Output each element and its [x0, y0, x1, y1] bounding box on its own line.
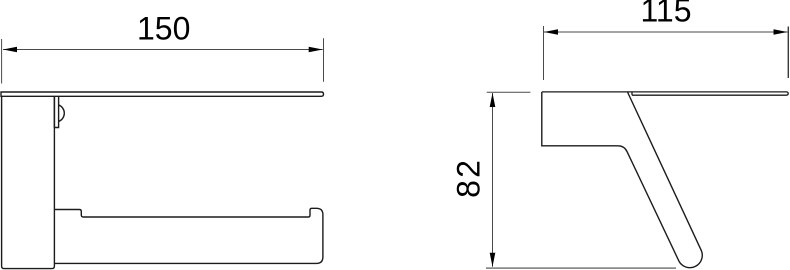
- dimension line 150: [3, 49, 323, 51]
- front view: roller post strip: [54, 96, 58, 127]
- front view: shelf profile: [1, 92, 324, 96]
- arrowhead left of 115: [544, 29, 558, 35]
- extension line bottom of 82: [486, 267, 676, 269]
- side view: arm tick under shelf: [631, 92, 633, 95]
- arrowhead bottom of 82: [490, 253, 496, 267]
- front view: roll bar: [54, 208, 323, 263]
- side view: wall bracket and arm outline: [542, 92, 702, 268]
- side view: shelf top line: [542, 92, 788, 95]
- arrowhead top of 82: [490, 93, 496, 107]
- extension line right of 115: [787, 27, 789, 79]
- svg-text:115: 115: [640, 0, 691, 29]
- svg-text:150: 150: [137, 11, 190, 47]
- arrowhead right of 150: [309, 47, 323, 53]
- svg-text:82: 82: [451, 158, 487, 198]
- arrowhead right of 115: [774, 29, 788, 35]
- extension line top of 82: [487, 91, 531, 93]
- arrowhead left of 150: [3, 47, 17, 53]
- front view: roller knob arc: [59, 105, 65, 121]
- extension line left of 150: [1, 39, 3, 84]
- dimension line 115: [544, 31, 788, 33]
- dimension line 82: [492, 93, 494, 267]
- front view: wall plate: [2, 96, 55, 268]
- extension line right of 150: [323, 38, 325, 81]
- extension line left of 115: [543, 26, 545, 80]
